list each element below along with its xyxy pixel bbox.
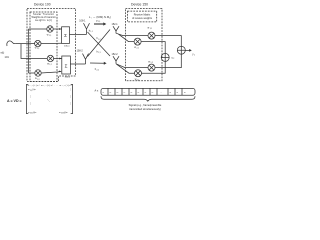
svg-text:2,2: 2,2 xyxy=(37,79,39,81)
wire rowD to adder2 xyxy=(142,61,166,73)
summer box S1 xyxy=(62,27,70,44)
adder A1 xyxy=(177,46,185,54)
band tick 11 xyxy=(181,88,183,95)
device 150 dashed box xyxy=(126,9,163,81)
svg-text:s(t): s(t) xyxy=(1,51,5,55)
label receive matrix xyxy=(132,13,153,19)
wire row2 to sum1 xyxy=(41,42,62,44)
svg-text:⋮: ⋮ xyxy=(30,96,32,99)
wire row4 to sum2 xyxy=(41,72,61,74)
wire RX2 feed to rowC xyxy=(116,64,148,68)
svg-text:Σ: Σ xyxy=(65,64,68,69)
mixer RC xyxy=(148,64,155,71)
channel path h12 xyxy=(88,32,111,56)
svg-text:108-2: 108-2 xyxy=(77,50,84,53)
wire rowB to adder2 xyxy=(141,42,165,54)
svg-text:s₆: s₆ xyxy=(138,92,140,94)
svg-text:Device 100: Device 100 xyxy=(34,2,51,6)
mixer M4 xyxy=(35,70,41,76)
adder A2 xyxy=(161,53,169,61)
band tick 9 xyxy=(167,88,169,95)
svg-text:w₁,₁(t)eʲ w₁,₂(t)eʲ ··· w₁,ₖ(: w₁,₁(t)eʲ w₁,₂(t)eʲ ··· w₁,ₖ(t)eʲ xyxy=(28,84,73,87)
input source s(t) xyxy=(7,41,15,46)
svg-text:Signal (e.g., frame/preamble: Signal (e.g., frame/preamble xyxy=(129,103,162,107)
wire row4 xyxy=(29,72,36,74)
svg-text:⋮: ⋮ xyxy=(70,88,72,91)
mixer M3 xyxy=(47,55,53,61)
wire RX1 feed to rowA xyxy=(116,33,148,35)
svg-text:(t)e: (t)e xyxy=(33,111,37,114)
svg-text:weights w(t): weights w(t) xyxy=(35,19,52,22)
wire input xyxy=(15,43,35,45)
svg-text:s₈: s₈ xyxy=(152,92,154,94)
band tick 6 xyxy=(142,88,144,95)
summer box S2 xyxy=(62,56,71,74)
band tick 1 xyxy=(107,88,109,95)
arrow transmission xyxy=(94,23,104,25)
svg-text:A = VD =: A = VD = xyxy=(7,99,22,103)
channel path h21 xyxy=(88,30,111,57)
svg-text:2,1: 2,1 xyxy=(98,52,100,54)
matrix row1 xyxy=(28,84,73,87)
mixer RD xyxy=(135,70,142,77)
svg-text:2,1: 2,1 xyxy=(37,48,39,50)
svg-text:(t)e: (t)e xyxy=(64,111,68,114)
svg-text:108-1: 108-1 xyxy=(79,20,86,23)
matrix row2 xyxy=(28,88,72,92)
mixer M1 xyxy=(47,26,53,32)
band tick 7 xyxy=(149,88,151,95)
matrix dots xyxy=(30,96,72,106)
svg-text:1,1: 1,1 xyxy=(90,31,92,33)
mixer RB xyxy=(134,38,141,45)
svg-text:106-1: 106-1 xyxy=(64,45,70,47)
antenna RX1 xyxy=(113,26,119,33)
svg-text:s₄: s₄ xyxy=(124,92,126,94)
label scalar transmit weights xyxy=(32,13,56,22)
wire bus to row3 xyxy=(21,44,47,59)
svg-text:⋱: ⋱ xyxy=(48,100,50,103)
wire rowC to adder1 xyxy=(155,54,181,67)
svg-text:⋮: ⋮ xyxy=(70,102,72,105)
svg-text:s₇: s₇ xyxy=(145,92,147,94)
svg-text:…: … xyxy=(160,92,162,94)
svg-text:of receive weights: of receive weights xyxy=(132,17,153,20)
svg-text:transmitted simultaneously): transmitted simultaneously) xyxy=(129,107,161,111)
brace under band xyxy=(101,96,195,101)
wire rowA to adder1 xyxy=(155,36,181,47)
svg-text:1: 1 xyxy=(194,55,195,57)
svg-text:s₂: s₂ xyxy=(110,92,112,94)
svg-text:152-1: 152-1 xyxy=(112,23,119,26)
wire RX2 branch to rowD xyxy=(117,64,135,73)
svg-text:Σ: Σ xyxy=(64,33,67,38)
svg-text:s₅: s₅ xyxy=(131,92,133,94)
matrix right bracket xyxy=(71,84,73,113)
svg-text:A·s: A·s xyxy=(95,90,100,93)
wire row3 xyxy=(46,58,48,60)
svg-text:↔ (N/M)·N·M₁): ↔ (N/M)·N·M₁) xyxy=(93,15,111,19)
mixer RA xyxy=(148,32,155,39)
svg-text:1,2: 1,2 xyxy=(151,62,153,64)
svg-text:1,2: 1,2 xyxy=(98,39,100,41)
channel path h22 arrow xyxy=(90,62,104,64)
wire bus vertical xyxy=(28,29,30,73)
wire sum1 to antenna1 xyxy=(70,33,87,35)
svg-text:2,1: 2,1 xyxy=(137,47,139,49)
svg-text:152-2: 152-2 xyxy=(112,53,119,56)
caption signal xyxy=(129,103,162,111)
svg-text:⋮: ⋮ xyxy=(70,96,72,99)
svg-text:s₍: s₍ xyxy=(170,92,172,94)
band tick 8 xyxy=(156,88,158,95)
svg-text:106-2: 106-2 xyxy=(65,76,71,78)
svg-text:1,1: 1,1 xyxy=(49,35,51,37)
svg-text:r: r xyxy=(91,17,92,19)
svg-text:⋮: ⋮ xyxy=(30,102,32,105)
svg-text:Device 150: Device 150 xyxy=(131,2,148,6)
band cells text xyxy=(103,92,187,94)
band tick 5 xyxy=(135,88,137,95)
band tick 2 xyxy=(114,88,116,95)
svg-text:2,2: 2,2 xyxy=(137,79,139,81)
wire RX1 branch to rowB xyxy=(119,34,135,41)
wire row1 xyxy=(29,28,48,30)
wire row1 to sum1 xyxy=(53,28,62,30)
svg-text:2,2: 2,2 xyxy=(97,69,99,71)
antenna TX2 xyxy=(83,54,89,64)
svg-text:1,1: 1,1 xyxy=(150,28,152,30)
scalar transmit weights dashed box xyxy=(30,12,57,82)
svg-text:s₃: s₃ xyxy=(117,92,119,94)
wire row3 to sum2 xyxy=(53,58,61,60)
svg-text:1,2: 1,2 xyxy=(49,64,51,66)
device 100 dashed box xyxy=(27,9,76,82)
band tick 4 xyxy=(128,88,130,95)
wire sum2 to antenna2 xyxy=(70,63,85,65)
svg-text:s₁: s₁ xyxy=(103,92,105,94)
wire adder1 out xyxy=(185,49,189,51)
antenna TX1 xyxy=(84,23,90,34)
band tick 3 xyxy=(121,88,123,95)
svg-text:(t)e: (t)e xyxy=(32,88,36,91)
mixer M2 xyxy=(35,40,41,46)
band tick 10 xyxy=(174,88,176,95)
svg-text:101: 101 xyxy=(5,55,10,59)
matrix left bracket xyxy=(27,84,29,113)
signal band xyxy=(101,88,195,95)
matrix row4 xyxy=(28,111,68,115)
antenna RX2 xyxy=(113,56,119,64)
svg-text:2: 2 xyxy=(173,58,174,60)
svg-text:s₍: s₍ xyxy=(177,92,179,94)
svg-text:1,1: 1,1 xyxy=(98,21,100,23)
svg-text:sₖ: sₖ xyxy=(184,92,186,94)
receive matrix dashed box xyxy=(128,11,157,22)
